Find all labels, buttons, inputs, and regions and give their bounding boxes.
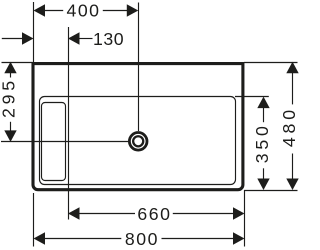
arrow 130 right (pointing left) xyxy=(68,32,80,44)
dimension 130 line segments xyxy=(2,38,23,40)
arrow 480 bottom (down) xyxy=(286,179,298,191)
arrow 800 right xyxy=(233,232,245,244)
arrow 295 bottom (down) xyxy=(4,130,16,142)
dimension 660 line segments xyxy=(79,213,135,215)
dimension 800 line segments xyxy=(44,238,121,240)
extension line top-right horizontal (480 top ref) xyxy=(244,62,298,64)
arrow 400 left xyxy=(34,4,46,16)
washbasin outer outline xyxy=(33,64,243,190)
arrow 350 bottom (down) xyxy=(257,179,269,191)
svg-text:350: 350 xyxy=(252,122,272,163)
arrow 660 left xyxy=(68,207,80,219)
svg-text:660: 660 xyxy=(137,204,171,224)
dimension 400 line segments xyxy=(44,10,63,12)
extension line right edge bottom (x=244.5) xyxy=(244,190,246,247)
arrow 400 right xyxy=(127,4,139,16)
bowl ledge rounded rectangle xyxy=(42,103,66,181)
extension line x=138.5 (400 reference to faucet) xyxy=(138,3,140,132)
faucet hole outer ring xyxy=(129,133,147,151)
dimension 350 line segments xyxy=(263,107,265,122)
washbasin inner rim xyxy=(40,97,236,185)
extension line faucet centerline horizontal (295 bottom ref) xyxy=(1,141,129,143)
extension line left edge bottom (x=33.5) xyxy=(33,193,35,247)
arrow 295 top (up) xyxy=(4,62,16,73)
svg-text:480: 480 xyxy=(279,106,299,147)
arrow 350 top (up) xyxy=(257,97,269,109)
arrow 130 left (pointing right) xyxy=(22,32,34,44)
svg-text:800: 800 xyxy=(125,229,159,249)
svg-text:130: 130 xyxy=(93,29,124,49)
faucet hole inner ring xyxy=(133,136,143,146)
svg-text:400: 400 xyxy=(66,1,100,21)
extension line inner rim right horizontal (350 top ref) xyxy=(235,96,269,98)
extension line left edge top (x=33.5) xyxy=(33,2,35,62)
extension line top-left horizontal (295 top ref) xyxy=(2,62,34,64)
arrow 660 right xyxy=(233,207,245,219)
extension line bottom-right horizontal (350/480 bottom ref) xyxy=(244,190,298,192)
dimension 480 line segments xyxy=(292,73,294,105)
arrow 480 top (up) xyxy=(286,62,298,73)
svg-text:295: 295 xyxy=(0,77,19,118)
arrow 800 left xyxy=(34,232,46,244)
dimension 295 line segments xyxy=(10,73,12,78)
extension line x=68.5 (130/660 reference) xyxy=(68,27,70,220)
